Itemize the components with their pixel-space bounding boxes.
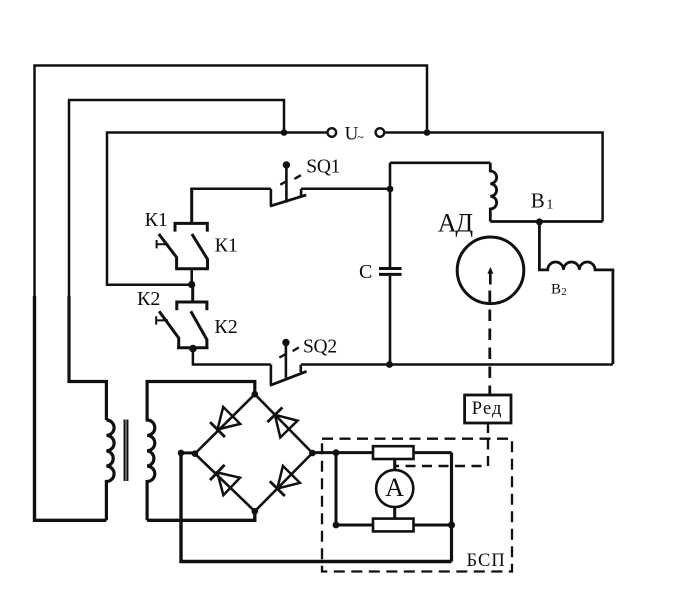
wire capacitor vertical <box>389 163 392 365</box>
wire K2 bottom to SQ2 left <box>193 349 271 365</box>
wire U right to top-right corner <box>384 133 602 222</box>
diode bridge diamond <box>195 394 313 511</box>
svg-text:К2: К2 <box>137 288 160 310</box>
svg-text:С: С <box>359 261 372 283</box>
wire SQ1 right to capacitor node <box>301 188 390 191</box>
wire BSP upper branch <box>336 451 452 454</box>
K2 mechanical flag <box>156 316 168 324</box>
inductor B1 winding <box>490 163 496 222</box>
resistor R1 <box>373 446 414 459</box>
wire BSP lower branch <box>336 453 452 525</box>
terminal U left <box>328 128 337 137</box>
wire motor top row <box>390 162 490 165</box>
wire bridge right to BSP node <box>312 451 336 454</box>
resistor R2 <box>373 519 414 532</box>
node bridge right <box>309 450 316 457</box>
transformer core <box>125 420 128 482</box>
node BSP right lower <box>448 521 455 528</box>
contact K2 <box>159 285 208 348</box>
dashed link reducer to ammeter <box>396 423 488 466</box>
label BSP <box>467 551 506 571</box>
switch SQ1 <box>270 161 306 206</box>
wire third loop (U-line left, down, to K1 junction) <box>107 133 327 285</box>
node junction B1/B2 <box>536 218 543 225</box>
label B1 <box>531 189 554 213</box>
svg-text:~: ~ <box>357 130 364 144</box>
wire SQ2 right to motor bottom row <box>301 363 613 366</box>
node stub <box>178 450 185 457</box>
label C <box>359 261 372 283</box>
svg-text:АД: АД <box>438 209 474 238</box>
node junction K1/K2 <box>188 281 195 288</box>
wire B1 bottom row <box>490 220 602 223</box>
label SQ2 <box>303 336 337 357</box>
label K1 right <box>215 234 238 256</box>
svg-text:А: А <box>385 473 404 502</box>
switch SQ2 <box>270 339 307 386</box>
terminal U right <box>376 128 385 137</box>
svg-text:SQ2: SQ2 <box>303 336 337 357</box>
label U~ <box>345 124 365 145</box>
svg-text:2: 2 <box>561 286 567 298</box>
capacitor C plates <box>379 269 402 275</box>
node bridge top <box>252 391 259 398</box>
wire second loop top/left <box>69 100 284 300</box>
wire K1 top to SQ1 left <box>190 188 271 191</box>
reducer box Red <box>465 395 511 423</box>
transformer T primary winding <box>106 420 114 520</box>
wire bridge left stub <box>181 451 195 454</box>
motor shaft arrow <box>487 267 493 285</box>
node bridge bottom <box>252 508 259 515</box>
svg-text:К1: К1 <box>215 234 238 256</box>
diode VD2 top-right <box>267 408 297 438</box>
svg-text:В: В <box>531 189 545 213</box>
svg-text:SQ1: SQ1 <box>306 157 340 178</box>
svg-text:К2: К2 <box>214 316 237 338</box>
label SQ1 <box>306 157 340 178</box>
box BSP dashed border <box>322 439 512 572</box>
motor AD circle <box>457 237 524 304</box>
ammeter leads <box>393 459 396 519</box>
node junction SQ1 right <box>387 186 394 193</box>
label B2 <box>551 282 567 298</box>
contact K1 <box>159 189 209 285</box>
K1 mechanical flag <box>157 240 169 248</box>
node BSP left lower <box>333 522 340 529</box>
wire bridge left down and bottom run <box>181 453 452 562</box>
svg-text:Ред: Ред <box>472 399 503 419</box>
node BSP left upper <box>333 449 340 456</box>
wire BSP right column <box>450 453 453 562</box>
svg-text:К1: К1 <box>145 209 168 231</box>
label K1 left <box>145 209 168 231</box>
transformer T secondary winding <box>147 382 255 521</box>
wire secondary bottom to bridge bottom <box>147 511 255 520</box>
wire second loop lower-left to transformer primary <box>69 296 106 420</box>
wire outer loop bottom-left <box>35 296 107 520</box>
inductor B2 winding <box>539 222 613 364</box>
node junction K2 bottom <box>189 345 197 353</box>
diode VD1 top-left <box>210 407 240 437</box>
node junction at 427,132 <box>424 129 431 136</box>
diode VD4 bottom-right <box>270 466 300 496</box>
svg-text:БСП: БСП <box>467 551 506 571</box>
node bridge left <box>192 450 199 457</box>
node junction capacitor bottom <box>386 361 393 368</box>
svg-text:1: 1 <box>546 197 553 212</box>
diode VD3 bottom-left <box>210 465 240 495</box>
label AD <box>438 209 474 238</box>
label K2 right <box>214 316 237 338</box>
motor shaft dashed line to reducer <box>488 291 491 396</box>
wire outer loop top/left <box>35 66 428 301</box>
label K2 left <box>137 288 160 310</box>
svg-text:В: В <box>551 282 561 298</box>
ammeter A <box>376 470 413 507</box>
node junction at 284,132 <box>281 129 288 136</box>
